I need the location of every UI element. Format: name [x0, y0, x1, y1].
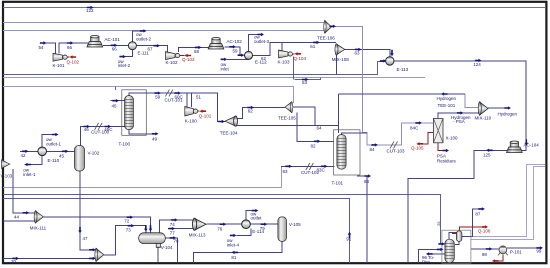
svg-text:T-101: T-101	[332, 181, 344, 186]
svg-text:Q-105: Q-105	[411, 146, 424, 151]
svg-text:60C: 60C	[175, 95, 184, 100]
svg-text:MIX-113: MIX-113	[189, 232, 206, 237]
svg-text:inlet: inlet	[221, 67, 230, 72]
svg-text:81: 81	[231, 255, 237, 260]
svg-text:77: 77	[170, 230, 176, 235]
svg-text:82: 82	[311, 143, 317, 148]
svg-text:K-100: K-100	[185, 118, 198, 123]
svg-text:T-100: T-100	[119, 142, 131, 147]
svg-text:63: 63	[355, 51, 361, 56]
svg-text:Q-103: Q-103	[182, 57, 195, 62]
svg-text:V-105: V-105	[289, 222, 301, 227]
svg-text:92: 92	[436, 222, 440, 226]
svg-text:MIX-110: MIX-110	[475, 115, 492, 120]
svg-text:62: 62	[248, 109, 254, 114]
svg-text:45: 45	[112, 104, 118, 109]
svg-text:84C: 84C	[410, 125, 419, 130]
svg-text:83C: 83C	[317, 167, 326, 172]
svg-text:73: 73	[126, 227, 132, 232]
svg-text:59: 59	[233, 49, 239, 54]
svg-text:66: 66	[112, 47, 118, 52]
svg-text:91: 91	[346, 237, 352, 242]
svg-text:Q-104: Q-104	[294, 56, 307, 61]
svg-text:74: 74	[170, 222, 176, 227]
svg-text:Hydrogen: Hydrogen	[437, 96, 457, 101]
svg-text:76: 76	[217, 226, 223, 231]
svg-text:E-110: E-110	[48, 158, 60, 163]
svg-text:TEE-106: TEE-106	[317, 36, 335, 41]
svg-text:K-102: K-102	[166, 60, 179, 65]
svg-text:98: 98	[482, 252, 488, 257]
svg-text:inlet-2: inlet-2	[118, 63, 131, 68]
svg-text:AC-101: AC-101	[105, 37, 121, 42]
svg-text:46: 46	[84, 127, 90, 132]
svg-text:X-100: X-100	[446, 136, 459, 141]
svg-text:inlet-1: inlet-1	[23, 172, 36, 177]
svg-text:49: 49	[152, 137, 158, 142]
svg-text:83: 83	[283, 169, 289, 174]
svg-text:Residues: Residues	[437, 159, 457, 164]
svg-text:84: 84	[370, 147, 376, 152]
svg-text:TEE-104: TEE-104	[220, 130, 238, 135]
svg-text:45C: 45C	[104, 127, 113, 132]
svg-text:44: 44	[14, 214, 20, 219]
svg-text:outlet-3: outlet-3	[254, 39, 270, 44]
svg-text:- PSA: - PSA	[453, 119, 465, 124]
svg-text:CUT-103: CUT-103	[387, 148, 406, 153]
svg-text:62: 62	[261, 56, 267, 61]
svg-text:K-101: K-101	[53, 63, 66, 68]
svg-text:45: 45	[59, 154, 65, 159]
svg-text:20: 20	[11, 259, 17, 264]
svg-text:125: 125	[483, 153, 491, 158]
svg-text:outlet-2: outlet-2	[136, 36, 152, 41]
svg-text:K-103: K-103	[278, 60, 291, 65]
svg-text:124: 124	[473, 62, 481, 67]
svg-text:V-103: V-103	[1, 173, 13, 178]
svg-text:42: 42	[21, 153, 27, 158]
svg-text:59: 59	[155, 95, 161, 100]
svg-text:AC-102: AC-102	[227, 39, 243, 44]
svg-text:67: 67	[148, 47, 154, 52]
svg-text:Q-106: Q-106	[478, 228, 491, 233]
svg-text:V-102: V-102	[88, 151, 100, 156]
svg-text:V-104: V-104	[161, 245, 173, 250]
svg-text:outlet: outlet	[251, 216, 263, 221]
svg-text:79: 79	[260, 226, 266, 231]
svg-text:47: 47	[83, 236, 89, 241]
svg-text:53: 53	[302, 80, 308, 85]
svg-text:51: 51	[196, 95, 202, 100]
svg-text:78: 78	[174, 239, 180, 244]
svg-text:64: 64	[317, 126, 323, 131]
svg-text:AC-104: AC-104	[524, 143, 540, 148]
svg-text:P-101: P-101	[510, 249, 523, 254]
svg-text:61: 61	[310, 44, 316, 49]
svg-text:83: 83	[364, 179, 370, 184]
svg-text:inlet-4: inlet-4	[227, 242, 240, 247]
svg-text:Q-102: Q-102	[67, 60, 80, 65]
svg-text:MIX-111: MIX-111	[30, 225, 47, 230]
svg-text:Hydrogen: Hydrogen	[498, 112, 518, 117]
svg-text:66: 66	[67, 45, 73, 50]
svg-text:TEE-101: TEE-101	[438, 103, 456, 108]
svg-text:58: 58	[194, 49, 200, 54]
svg-text:54: 54	[39, 45, 45, 50]
svg-text:E-113: E-113	[397, 67, 409, 72]
svg-text:122: 122	[86, 8, 94, 13]
svg-text:Dist: Dist	[422, 260, 430, 265]
svg-text:72: 72	[124, 218, 130, 223]
svg-text:99: 99	[536, 249, 542, 254]
svg-text:TEE-105: TEE-105	[278, 116, 296, 121]
svg-text:outlet-1: outlet-1	[46, 142, 62, 147]
svg-text:87: 87	[475, 211, 481, 216]
svg-text:MIX-108: MIX-108	[332, 57, 350, 62]
svg-text:Q-101: Q-101	[199, 113, 212, 118]
